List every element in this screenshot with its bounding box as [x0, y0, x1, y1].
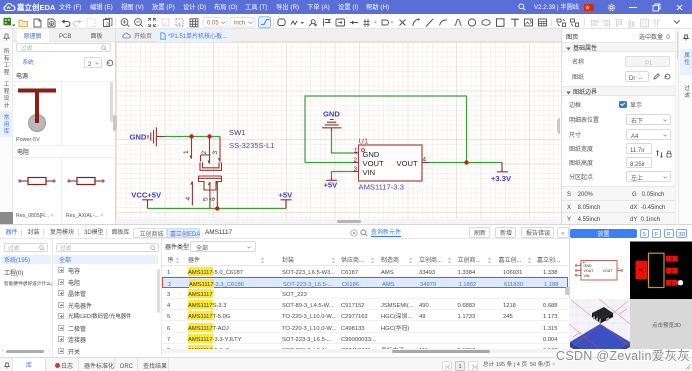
section 电源	[16, 73, 28, 79]
gear icon	[607, 3, 616, 12]
icon: board green	[4, 18, 16, 27]
junction at U1 VOUT net	[464, 160, 468, 164]
restore	[652, 3, 661, 12]
power flag +5V (switch right)	[281, 200, 292, 209]
image	[525, 19, 533, 26]
svg-text:0.05: 0.05	[207, 18, 219, 27]
power flag +5V (U1 VIN)	[326, 177, 337, 180]
wire U1 pin 4 to +3.3V	[430, 162, 502, 164]
svg-text:GND: GND	[130, 133, 147, 142]
import doc	[48, 19, 55, 27]
switch SW1 pin 4 lead	[191, 182, 193, 206]
wire loop to U1 pin 2	[305, 162, 353, 164]
canvas tab bar	[116, 29, 561, 42]
middle column	[53, 239, 162, 371]
junction at SW1 pin 2	[207, 134, 211, 138]
dropdown inch	[230, 18, 255, 28]
Power-5V symbol	[15, 84, 59, 134]
tabs	[13, 29, 115, 42]
sep	[115, 18, 117, 27]
T	[511, 19, 519, 27]
switch SW1 pin 5 lead	[208, 182, 210, 209]
svg-text:GND: GND	[323, 110, 340, 119]
paste	[104, 20, 110, 27]
svg-text:6: 6	[210, 197, 217, 201]
svg-text:VOUT: VOUT	[583, 269, 594, 273]
left panel	[13, 29, 116, 224]
fit screen	[148, 18, 156, 26]
svg-text:1: 1	[183, 150, 190, 154]
diff pair	[364, 19, 370, 27]
arc	[440, 19, 448, 27]
junction at SW1 pin 1	[189, 134, 193, 138]
section 电阻	[17, 149, 29, 155]
dropdown 0.05	[203, 18, 227, 28]
svg-text:+5V: +5V	[279, 191, 294, 200]
rect	[497, 19, 505, 27]
power flag +3.3V	[497, 163, 508, 172]
right tab strip	[678, 29, 692, 224]
table	[539, 19, 547, 26]
status rows	[562, 186, 675, 224]
resistor cells	[13, 158, 115, 224]
zoom in	[121, 19, 128, 26]
table/preview divider	[569, 225, 570, 371]
svg-text:4: 4	[639, 268, 645, 271]
svg-text:1: 1	[354, 148, 358, 155]
canvas left collapse handle	[113, 115, 117, 131]
svg-text:4: 4	[185, 197, 192, 201]
svg-text:SS-3235S-L1: SS-3235S-L1	[229, 141, 275, 150]
switch SW1 upper contact cup	[200, 163, 222, 171]
scurve	[455, 20, 462, 26]
wire VCC+5V rail to +5V	[148, 208, 287, 210]
symbol preview	[570, 239, 630, 299]
row 明细表位置	[569, 117, 599, 123]
wire loop VOUT feedback	[305, 96, 467, 163]
footprint preview	[630, 239, 692, 299]
folder	[19, 20, 28, 27]
row 图纸	[572, 74, 584, 80]
pin	[309, 20, 315, 26]
china flag	[584, 4, 594, 11]
table h scrollbar	[162, 349, 568, 353]
new doc	[34, 19, 41, 27]
undo	[62, 22, 70, 27]
panel scrollbar	[110, 82, 113, 122]
switch SW1 upper moving contact	[201, 155, 211, 162]
right panel scrollbar	[675, 29, 679, 224]
svg-text:+5V: +5V	[324, 181, 339, 190]
preview panel	[570, 225, 692, 357]
svg-text:VOUT: VOUT	[363, 159, 384, 168]
switch SW1 pin 6 lead	[216, 182, 218, 209]
pen arc	[413, 19, 420, 26]
frag1	[557, 19, 566, 27]
3d placeholder	[630, 299, 692, 349]
wire zigzag	[291, 21, 297, 25]
wire GND rail to SW1	[165, 136, 220, 138]
ground symbol GND net (at U1)	[322, 120, 342, 132]
svg-text:VCC+5V: VCC+5V	[131, 191, 162, 200]
svg-text:VOUT: VOUT	[397, 159, 418, 168]
ellipse	[482, 20, 490, 26]
wire tool selected	[259, 17, 271, 28]
row 边框	[569, 102, 581, 108]
svg-text:GND: GND	[363, 150, 380, 159]
watermark	[556, 349, 690, 362]
close	[676, 4, 683, 11]
svg-text:U1: U1	[359, 137, 369, 146]
canvas right collapse handle	[557, 118, 561, 134]
svg-text:3: 3	[212, 151, 219, 155]
row 图纸宽度	[569, 146, 593, 152]
left icon strip	[0, 29, 13, 224]
svg-text:VIN: VIN	[363, 168, 376, 177]
svg-text:4: 4	[423, 157, 427, 164]
line	[426, 19, 433, 27]
left column	[0, 239, 53, 371]
schematic area with grid	[116, 42, 561, 219]
search icon	[518, 3, 526, 11]
svg-text:4: 4	[617, 267, 619, 271]
row 分区起点	[569, 174, 593, 180]
row 尺寸	[569, 132, 581, 138]
logo cloud	[3, 2, 16, 12]
pagination	[442, 361, 452, 371]
power flag VCC+5V	[142, 200, 153, 209]
circle	[468, 19, 475, 26]
redo (disabled)	[73, 22, 81, 27]
disabled align icons	[592, 19, 599, 27]
bus	[350, 22, 358, 24]
component	[278, 19, 285, 26]
wire +5V to U1 VIN	[332, 172, 354, 178]
power-5V cell	[13, 82, 115, 145]
grid	[190, 19, 198, 27]
junction at SW1 pin 6	[215, 206, 219, 210]
dashed select (disabled)	[87, 19, 95, 27]
svg-text:AMS1117-3.3: AMS1117-3.3	[359, 183, 404, 192]
IC U1 origin marker	[361, 149, 364, 152]
svg-text:3: 3	[354, 166, 358, 173]
svg-text:2: 2	[354, 157, 358, 164]
netport	[336, 19, 345, 26]
h scrollbar	[2, 349, 50, 353]
svg-text:a: a	[106, 21, 109, 28]
segmented source control	[133, 228, 167, 238]
3d preview	[569, 299, 630, 349]
X	[400, 20, 406, 26]
table area	[162, 239, 568, 353]
row 名称	[572, 59, 584, 65]
header	[162, 254, 568, 266]
frag2	[571, 19, 579, 27]
minimize	[629, 7, 637, 8]
bottom status row	[0, 357, 692, 371]
IC U1 pin leads 1,2,3,4	[353, 153, 430, 172]
zoom sel2	[176, 19, 183, 26]
svg-text:+3.3V: +3.3V	[491, 174, 512, 183]
dshape	[382, 20, 389, 25]
switch SW1 pin 2 lead	[208, 137, 210, 164]
svg-text:SW1: SW1	[229, 128, 245, 137]
ground symbol GND net (at SW1, rotated)	[148, 127, 165, 146]
svg-text:inch: inch	[234, 18, 245, 27]
switch SW1 pin 3 lead	[218, 137, 220, 162]
row 图纸高度	[569, 160, 593, 166]
svg-text:5: 5	[203, 197, 210, 201]
svg-text:2: 2	[201, 151, 208, 155]
switch SW1 lower contact body	[199, 176, 222, 190]
svg-text:VIN: VIN	[583, 274, 589, 278]
svg-text:GND: GND	[583, 264, 591, 268]
tab row	[0, 225, 692, 239]
swap icon	[655, 149, 664, 159]
system row	[23, 60, 34, 66]
filter box	[16, 43, 111, 52]
zoom sel disabled	[162, 19, 169, 26]
canvas h scrollbar	[116, 219, 561, 224]
IC U1 (AMS1117-3.3) body	[359, 145, 423, 181]
netflag	[324, 19, 331, 27]
wire GND to U1 pin 1	[332, 130, 354, 153]
zoom out	[135, 19, 142, 26]
switch SW1 pin 1 lead	[190, 137, 192, 159]
svg-text:VOUT: VOUT	[602, 269, 613, 273]
